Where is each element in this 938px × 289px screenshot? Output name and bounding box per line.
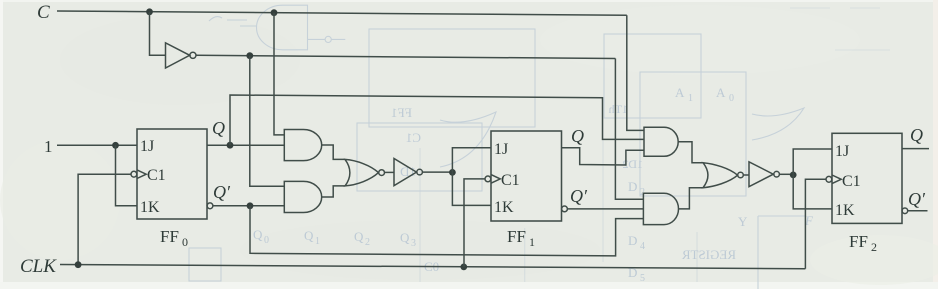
svg-text:FF: FF [507, 227, 526, 246]
node junction J2K2 [790, 172, 797, 179]
pin FF0 1K label [140, 199, 160, 216]
svg-text:C1: C1 [501, 172, 520, 189]
svg-text:FF: FF [160, 227, 179, 246]
pin FF2 C1 label and dynamic wedge [832, 175, 841, 184]
and-gate G4 (C, Q0, Q1) [644, 127, 678, 156]
wire G9 output to FF2 J/K node [779, 173, 793, 175]
svg-text:2: 2 [365, 237, 370, 248]
wire G7 output to FF1 J/K node [422, 171, 452, 173]
wire G8 to inverter G9 [743, 174, 749, 176]
node junction CLK to FF1 [460, 264, 467, 271]
label FF1 Q [571, 126, 584, 146]
node junction 1J/1K tie [112, 142, 119, 149]
node C input label [37, 2, 50, 23]
wire G4 output to NOR G8 [678, 142, 703, 163]
svg-text:CLK: CLK [20, 256, 57, 277]
nor-gate G6 [345, 159, 379, 186]
wire G6 to inverter G7 [385, 171, 395, 173]
svg-text:Q: Q [253, 227, 263, 242]
and-gate G5 (C', Q1', Q0') [643, 193, 678, 224]
wire Q0 up and over to AND G4 [230, 95, 644, 145]
svg-text:A: A [716, 85, 726, 100]
flip-flop FF1 box [491, 131, 562, 221]
label FF1 [507, 227, 535, 249]
wire G5 output to NOR G8 [679, 188, 704, 209]
wire tie down to FF0 1K [116, 145, 138, 205]
svg-text:Q′: Q′ [570, 186, 588, 206]
wire FF0 Q' to AND G3 [213, 205, 284, 207]
svg-text:0: 0 [264, 235, 269, 246]
label FF2 [849, 232, 877, 254]
wire 1 to FF0 1J [57, 144, 137, 146]
svg-text:C1: C1 [147, 167, 166, 184]
node junction C' branch left [246, 52, 253, 59]
svg-text:1: 1 [315, 236, 320, 247]
flip-flop FF2 box [832, 133, 902, 223]
svg-text:1J: 1J [494, 141, 508, 158]
pin FF1 C1 label and dynamic wedge [491, 175, 500, 184]
wire FF0 C1 to CLK rail [78, 174, 131, 265]
label FF0 [160, 227, 188, 249]
inverter G1 (C to C') [166, 43, 190, 68]
svg-text:3: 3 [411, 238, 416, 249]
pin FF0 Q' bubble [207, 203, 213, 209]
wire CLK rail [60, 265, 805, 269]
pin FF2 Q' bubble [902, 208, 908, 214]
svg-text:1: 1 [688, 93, 693, 104]
wire FF0 Q to AND G2 [207, 144, 284, 146]
svg-text:C: C [37, 2, 50, 23]
wire C' down to AND G3 input [250, 56, 284, 187]
svg-text:0: 0 [182, 235, 188, 249]
wire C down to AND G2 input [274, 13, 284, 135]
label FF1 Q' [570, 186, 588, 206]
wire node down to FF1 1K [452, 172, 491, 205]
svg-text:FF: FF [849, 232, 868, 251]
pin FF1 C1 bubble [485, 176, 491, 182]
background print-through ghosts (decorative) [189, 5, 890, 289]
label FF2 Q output [910, 125, 923, 145]
pin FF0 C1 label and dynamic wedge [137, 170, 146, 179]
svg-text:C1: C1 [406, 130, 421, 145]
node junction C to inverter [146, 8, 153, 15]
label FF2 Q' output [908, 189, 926, 209]
wire FF2 Q' out [908, 210, 928, 212]
node junction CLK to FF0 [75, 261, 82, 268]
svg-text:Q′: Q′ [908, 189, 926, 209]
svg-text:1J: 1J [835, 143, 849, 160]
pin FF1 Q' bubble [562, 206, 568, 212]
svg-text:1: 1 [529, 235, 535, 249]
wire C' bus [196, 55, 615, 58]
pin FF1 1K label [494, 199, 514, 216]
svg-text:1J: 1J [140, 138, 154, 155]
wire Q0' down and over to AND G5 [250, 206, 643, 256]
svg-text:1: 1 [44, 137, 53, 156]
svg-text:D: D [628, 233, 637, 248]
pin FF0 1J label [140, 138, 154, 155]
pin FF2 1J label [835, 143, 849, 160]
svg-text:Q: Q [910, 125, 923, 145]
svg-text:Q: Q [304, 228, 314, 243]
node junction Q0 [227, 142, 234, 149]
svg-text:Q′: Q′ [213, 182, 231, 202]
wire FF2 Q out [902, 148, 929, 150]
nor-gate G8 [703, 163, 738, 188]
inverter G9 [749, 162, 773, 187]
wire C bus [57, 11, 627, 15]
pin FF1 1J label [494, 141, 508, 158]
svg-text:Q: Q [354, 229, 364, 244]
wire node up to FF2 1J [793, 149, 832, 175]
node junction Q0' [247, 202, 254, 209]
label FF0 Q' [213, 182, 231, 202]
pin FF0 C1 bubble [131, 171, 137, 177]
svg-text:D: D [628, 179, 637, 194]
flip-flop FF0 box [137, 129, 207, 219]
node junction C branch to AND G2 [271, 9, 278, 16]
svg-text:1K: 1K [140, 199, 160, 216]
svg-text:C1: C1 [842, 173, 861, 190]
svg-text:Q: Q [400, 230, 410, 245]
pin FF2 C1 bubble [826, 176, 832, 182]
svg-text:Q: Q [571, 126, 584, 146]
wire C down to AND G4 input [627, 15, 644, 130]
svg-text:Q: Q [212, 118, 225, 138]
wire FF1 Q' to AND G5 [567, 208, 643, 210]
svg-text:1K: 1K [835, 202, 855, 219]
wire node up to FF1 1J [452, 148, 491, 173]
svg-text:A: A [675, 85, 685, 100]
svg-text:1Th: 1Th [609, 102, 628, 116]
and-gate G3 (C', Q0') [284, 181, 321, 212]
wire G3 output to NOR G6 [322, 186, 345, 197]
node junction J1K1 [449, 169, 456, 176]
and-gate G2 (C, Q0) [284, 130, 321, 161]
inverter G7 [394, 159, 417, 186]
wire FF1 C1 to CLK rail [464, 179, 485, 267]
wire node down to FF2 1K [793, 175, 832, 209]
label FF0 Q [212, 118, 225, 138]
pin FF2 1K label [835, 202, 855, 219]
svg-text:5: 5 [640, 273, 645, 284]
wire C' down to AND G5 input [615, 59, 643, 200]
svg-text:0: 0 [729, 93, 734, 104]
svg-text:REGISTR: REGISTR [682, 247, 737, 262]
node input 1 label [44, 137, 53, 156]
svg-text:FF1: FF1 [391, 105, 412, 120]
wire C down to inverter input [150, 12, 166, 56]
svg-text:Y: Y [738, 214, 748, 229]
svg-text:1K: 1K [494, 199, 514, 216]
wire G2 output to NOR G6 [322, 145, 345, 159]
label CLK [20, 256, 57, 277]
wire FF2 C1 to CLK rail [805, 179, 826, 268]
svg-text:2: 2 [871, 240, 877, 254]
wire FF1 Q staircase to AND G4 [562, 148, 645, 165]
svg-text:4: 4 [640, 241, 645, 252]
